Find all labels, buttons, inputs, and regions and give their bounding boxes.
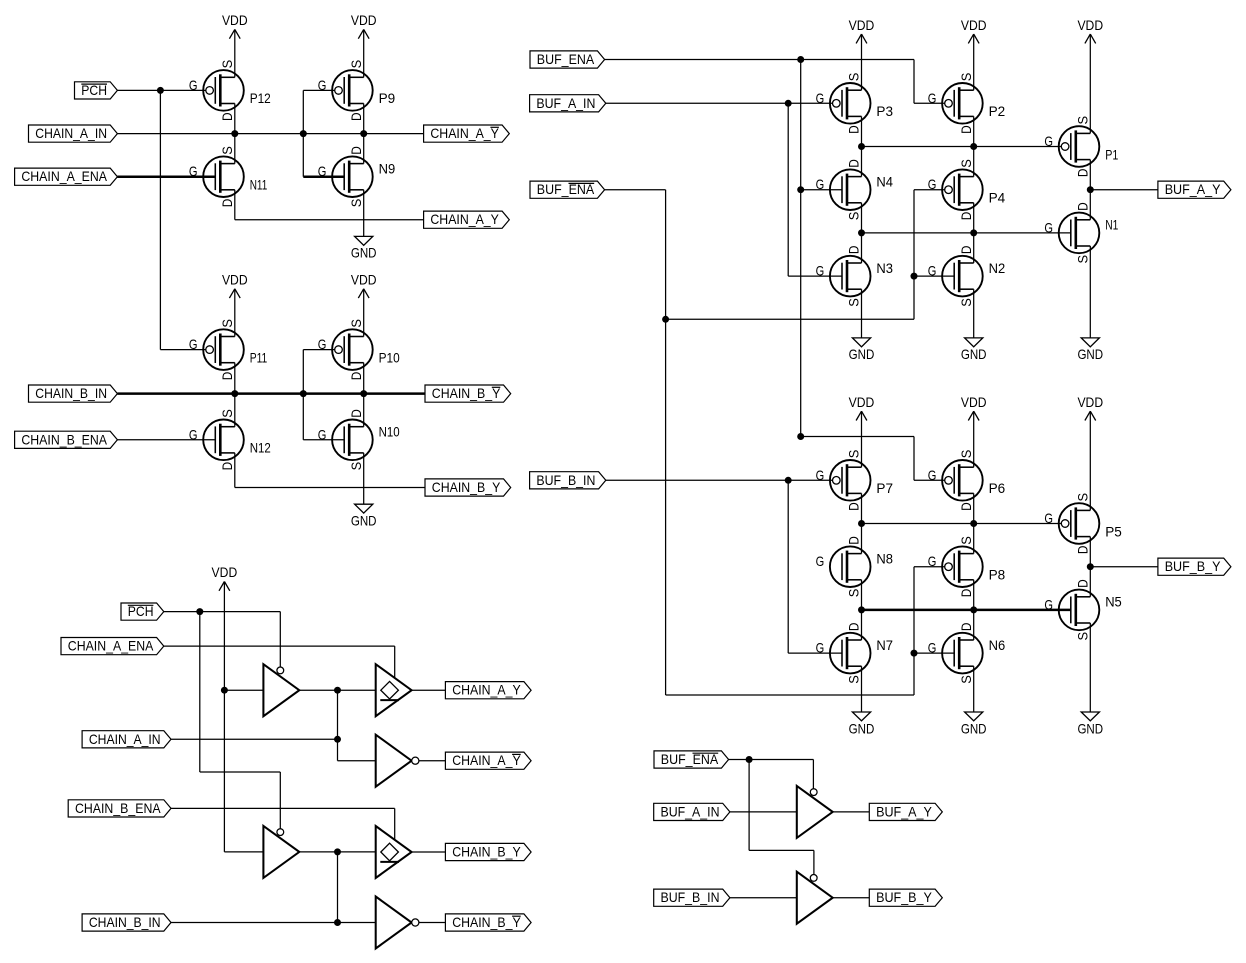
svg-text:D: D bbox=[219, 462, 235, 471]
svg-text:G: G bbox=[816, 176, 825, 192]
wire gate ladder vertical bbox=[302, 90, 304, 176]
wire BUF_ENAbar up to P4 gate bbox=[913, 190, 915, 320]
wire CHAIN_B_Ybar out bbox=[419, 922, 445, 924]
gate buffer U8 (BUF_B_Y) bbox=[797, 872, 833, 924]
svg-text:S: S bbox=[219, 146, 235, 155]
wire P9 drain bbox=[363, 104, 365, 134]
wire PCH to P12 gate bbox=[160, 89, 205, 91]
net flag CHAIN_A_Y (output label) bbox=[445, 682, 531, 699]
junction PCH node bbox=[157, 87, 164, 94]
svg-text:N1: N1 bbox=[1105, 217, 1118, 233]
svg-text:BUF_A_Y: BUF_A_Y bbox=[1165, 181, 1221, 197]
junction buffer B out bbox=[334, 848, 341, 855]
transistor N7 (NMOS) bbox=[816, 623, 894, 684]
ground GND symbol bbox=[1077, 712, 1103, 736]
wire BUF_ENAbar vertical bbox=[665, 190, 667, 695]
svg-text:G: G bbox=[816, 553, 825, 569]
svg-text:VDD: VDD bbox=[849, 17, 875, 33]
power VDD symbol bbox=[351, 272, 377, 299]
svg-text:VDD: VDD bbox=[222, 272, 248, 288]
wire VDD line to buffer B input bbox=[223, 690, 225, 852]
svg-text:D: D bbox=[958, 246, 974, 255]
wire VDD stem bbox=[861, 411, 863, 467]
net flag CHAIN_A_ENA (input label) bbox=[61, 638, 164, 655]
power VDD symbol bbox=[351, 12, 377, 39]
junction node B1 bbox=[858, 520, 865, 527]
transistor P12 (PMOS) bbox=[189, 60, 271, 121]
gate tri-state buffer U5 (CHAIN_B_Y) bbox=[376, 826, 412, 878]
net flag PCH (input label) bbox=[121, 603, 164, 620]
svg-text:GND: GND bbox=[1077, 720, 1103, 736]
transistor P3 (PMOS) bbox=[816, 73, 894, 134]
svg-text:S: S bbox=[846, 450, 862, 459]
transistor P10 (PMOS) bbox=[318, 319, 400, 380]
svg-text:S: S bbox=[348, 319, 364, 328]
wire P1 drain bbox=[1089, 160, 1091, 220]
svg-text:P9: P9 bbox=[379, 90, 396, 106]
svg-text:VDD: VDD bbox=[849, 394, 875, 410]
wire CHAIN_B_ENA bbox=[171, 807, 395, 809]
junction node A2 col B bbox=[970, 229, 977, 236]
svg-text:S: S bbox=[958, 450, 974, 459]
svg-text:P12: P12 bbox=[250, 90, 271, 106]
wire P3 drain chain bbox=[861, 116, 863, 176]
wire inverter B input bbox=[338, 922, 376, 924]
svg-text:VDD: VDD bbox=[351, 272, 377, 288]
wire BUF_ENAbar up to P8 gate bbox=[913, 567, 915, 695]
svg-text:S: S bbox=[846, 212, 862, 221]
svg-text:P10: P10 bbox=[379, 349, 400, 365]
wire N12 drain down bbox=[234, 453, 236, 488]
svg-text:N3: N3 bbox=[876, 260, 893, 276]
power VDD symbol bbox=[849, 394, 875, 421]
transistor P9 (PMOS) bbox=[318, 60, 396, 121]
transistor P7 (PMOS) bbox=[816, 450, 894, 511]
junction CHAIN_A_IN / inverter gates bbox=[300, 130, 307, 137]
junction VDD / buffer A input bbox=[221, 687, 228, 694]
svg-text:G: G bbox=[928, 553, 937, 569]
ground GND symbol bbox=[351, 236, 377, 260]
transistor N12 (NMOS) bbox=[189, 409, 271, 470]
svg-text:CHAIN_A_Y: CHAIN_A_Y bbox=[452, 682, 521, 698]
svg-text:G: G bbox=[816, 640, 825, 656]
svg-text:G: G bbox=[816, 90, 825, 106]
svg-text:N4: N4 bbox=[876, 174, 893, 190]
junction CHAIN_B_IN / P11 drain bbox=[231, 390, 238, 397]
junction CHAIN_A_Ybar node bbox=[360, 130, 367, 137]
wire PCH to buffer B enable bbox=[279, 772, 281, 835]
svg-text:S: S bbox=[958, 536, 974, 545]
svg-text:D: D bbox=[958, 502, 974, 511]
svg-text:BUF_A_IN: BUF_A_IN bbox=[536, 95, 595, 111]
net flag CHAIN_A_Y (output label) bbox=[424, 211, 510, 228]
transistor N11 (NMOS) bbox=[189, 146, 268, 207]
wire P12 drain bbox=[234, 104, 236, 134]
wire N10 source to GND bbox=[363, 453, 365, 504]
wire P2 drain chain bbox=[973, 116, 975, 176]
wire VDD stem to P10 source bbox=[363, 289, 365, 337]
net flag BUF_B_IN (input label) bbox=[530, 472, 606, 489]
svg-text:S: S bbox=[958, 675, 974, 684]
net flag CHAIN_A_ENA (input label) bbox=[15, 168, 118, 185]
wire inverter A input bbox=[338, 760, 376, 762]
junction BUF_ENAbar bbox=[746, 756, 753, 763]
wire node B1 to P5 gate bbox=[862, 523, 1062, 525]
svg-text:P11: P11 bbox=[250, 349, 268, 365]
svg-text:D: D bbox=[958, 212, 974, 221]
svg-text:CHAIN_B_Y: CHAIN_B_Y bbox=[452, 914, 521, 930]
svg-text:S: S bbox=[846, 675, 862, 684]
svg-text:GND: GND bbox=[351, 513, 377, 529]
section: CHAIN gate-level view bbox=[0, 0, 1, 1]
wire N11 source bbox=[234, 134, 236, 164]
svg-text:GND: GND bbox=[849, 720, 875, 736]
net flag BUF_ENAbar (input label) bbox=[654, 751, 729, 768]
wire N12 source bbox=[234, 394, 236, 427]
svg-text:S: S bbox=[958, 298, 974, 307]
wire BUF_ENA down to P2 gate bbox=[913, 60, 915, 104]
wire P5 drain bbox=[1089, 537, 1091, 597]
svg-text:GND: GND bbox=[961, 720, 987, 736]
svg-text:S: S bbox=[958, 73, 974, 82]
transistor P1 (PMOS) bbox=[1044, 116, 1118, 177]
transistor P11 (PMOS) bbox=[189, 319, 268, 380]
svg-text:S: S bbox=[1075, 632, 1091, 641]
wire CHAIN_B_IN bus (bold) bbox=[117, 392, 425, 395]
junction BUF_A_IN bbox=[785, 100, 792, 107]
wire to N6 gate bbox=[914, 652, 954, 654]
power VDD symbol bbox=[1077, 394, 1103, 421]
net flag CHAIN_B_ENA (input label) bbox=[15, 431, 118, 448]
wire N6 source to GND bbox=[973, 666, 975, 712]
svg-text:D: D bbox=[846, 623, 862, 632]
wire gate ladder vertical B bbox=[302, 350, 304, 440]
wire to N4 gate bbox=[801, 189, 842, 191]
wire to N7 gate bbox=[788, 652, 842, 654]
wire N8 source chain bbox=[861, 580, 863, 640]
wire CHAIN_A_Y bbox=[235, 219, 424, 221]
wire node B2 to N5 gate (bold) bbox=[862, 609, 1071, 612]
junction node A2 bbox=[858, 229, 865, 236]
svg-text:D: D bbox=[846, 246, 862, 255]
section: CHAIN B transistor stage bbox=[0, 0, 1, 1]
wire VDD stem bbox=[1089, 411, 1091, 510]
wire BUF_B_Y bbox=[1090, 566, 1158, 568]
wire BUF_ENA B branch bbox=[801, 436, 914, 438]
svg-text:CHAIN_B_ENA: CHAIN_B_ENA bbox=[75, 800, 161, 816]
wire CHAIN_A_Y out bbox=[412, 689, 446, 691]
wire N2 source to GND bbox=[973, 289, 975, 338]
wire VDD stem bbox=[861, 34, 863, 90]
svg-text:S: S bbox=[348, 199, 364, 208]
svg-text:S: S bbox=[219, 319, 235, 328]
wire N7 source to GND bbox=[861, 666, 863, 712]
ground GND symbol bbox=[849, 338, 875, 362]
net flag CHAIN_B_Ybar (output label) bbox=[445, 914, 531, 931]
svg-text:VDD: VDD bbox=[222, 12, 248, 28]
wire PCH vertical bbox=[199, 612, 201, 772]
svg-text:N5: N5 bbox=[1105, 594, 1122, 610]
wire N9 source to GND bbox=[363, 190, 365, 237]
svg-text:G: G bbox=[928, 176, 937, 192]
wire BUF_A_Y bbox=[1090, 189, 1158, 191]
svg-text:N10: N10 bbox=[379, 424, 400, 440]
junction buffer A out bbox=[334, 687, 341, 694]
wire PCH bbox=[164, 611, 280, 613]
wire to N10 gate bbox=[303, 439, 344, 441]
svg-text:CHAIN_A_IN: CHAIN_A_IN bbox=[35, 125, 107, 141]
svg-text:G: G bbox=[928, 467, 937, 483]
wire node A2 to N1 gate bbox=[862, 232, 1071, 234]
transistor N8 (NMOS) bbox=[816, 536, 894, 597]
wire BUF_ENAbar bbox=[605, 189, 666, 191]
junction BUF_ENAbar / N2 gate bbox=[911, 273, 918, 280]
svg-text:GND: GND bbox=[1077, 346, 1103, 362]
wire to P4 gate bbox=[914, 189, 945, 191]
svg-text:S: S bbox=[219, 409, 235, 418]
svg-text:S: S bbox=[1075, 255, 1091, 264]
junction BUF_ENAbar A branch bbox=[662, 316, 669, 323]
wire node A1 to P1 gate bbox=[862, 146, 1062, 148]
wire VDD stem to P12 source bbox=[234, 29, 236, 77]
svg-text:BUF_B_Y: BUF_B_Y bbox=[876, 889, 932, 905]
wire VDD stem bbox=[973, 411, 975, 467]
power VDD symbol bbox=[849, 17, 875, 44]
wire BUF_A_IN vertical bbox=[787, 103, 789, 276]
svg-text:CHAIN_A_Y: CHAIN_A_Y bbox=[452, 752, 521, 768]
transistor P4 (PMOS) bbox=[928, 159, 1006, 220]
wire P10 drain bbox=[363, 363, 365, 394]
net flag CHAIN_B_ENA (input label) bbox=[68, 800, 171, 817]
svg-text:N8: N8 bbox=[876, 551, 893, 567]
svg-text:CHAIN_B_Y: CHAIN_B_Y bbox=[452, 844, 521, 860]
net flag CHAIN_A_Ybar (output label) bbox=[424, 125, 510, 142]
svg-text:N6: N6 bbox=[989, 637, 1006, 653]
power VDD symbol bbox=[961, 394, 987, 421]
wire N3 source to GND bbox=[861, 289, 863, 338]
power VDD symbol bbox=[1077, 17, 1103, 44]
wire CHAIN_B_IN bbox=[171, 922, 338, 924]
svg-text:CHAIN_A_Y: CHAIN_A_Y bbox=[430, 211, 499, 227]
svg-text:GND: GND bbox=[351, 245, 377, 261]
svg-text:P1: P1 bbox=[1105, 146, 1118, 162]
svg-text:D: D bbox=[846, 159, 862, 168]
svg-text:CHAIN_A_IN: CHAIN_A_IN bbox=[89, 731, 161, 747]
net flag BUF_ENA (input label) bbox=[530, 51, 605, 68]
svg-text:P3: P3 bbox=[876, 103, 893, 119]
wire BUF_A_Y out bbox=[833, 811, 870, 813]
wire P7 drain chain bbox=[861, 493, 863, 553]
svg-text:D: D bbox=[958, 623, 974, 632]
svg-text:CHAIN_A_ENA: CHAIN_A_ENA bbox=[68, 638, 154, 654]
junction BUF_B_Y node bbox=[1087, 563, 1094, 570]
svg-text:D: D bbox=[846, 502, 862, 511]
wire buffer B input bbox=[224, 851, 263, 853]
ground GND symbol bbox=[849, 712, 875, 736]
wire CHAIN_A_ENA down to tristate enable bbox=[394, 646, 396, 678]
net flag CHAIN_B_Ybar (output label) bbox=[425, 385, 511, 402]
svg-text:S: S bbox=[846, 73, 862, 82]
power VDD symbol bbox=[222, 12, 248, 39]
wire PCH to buffer A enable bbox=[279, 612, 281, 674]
wire P11 drain bbox=[234, 363, 236, 394]
junction CHAIN_B_IN bbox=[334, 919, 341, 926]
svg-text:D: D bbox=[348, 146, 364, 155]
wire CHAIN_B_ENA to N12 gate bbox=[117, 439, 215, 441]
svg-text:CHAIN_B_Y: CHAIN_B_Y bbox=[432, 385, 501, 401]
svg-text:S: S bbox=[1075, 493, 1091, 502]
power VDD symbol bbox=[961, 17, 987, 44]
wire N11 drain down bbox=[234, 190, 236, 220]
gate inverter U4 (CHAIN_A_Ybar) bbox=[376, 735, 419, 787]
svg-text:BUF_B_IN: BUF_B_IN bbox=[661, 889, 720, 905]
svg-text:P4: P4 bbox=[989, 190, 1006, 206]
junction BUF_ENA / N4 gate bbox=[797, 186, 804, 193]
wire VDD stem bbox=[223, 582, 225, 691]
svg-text:G: G bbox=[928, 263, 937, 279]
net flag PCH (input label) bbox=[75, 82, 118, 99]
svg-text:S: S bbox=[1075, 116, 1091, 125]
wire BUF_A_IN to P3 gate bbox=[606, 102, 833, 104]
svg-text:P2: P2 bbox=[989, 103, 1006, 119]
svg-text:CHAIN_B_ENA: CHAIN_B_ENA bbox=[21, 431, 107, 447]
wire down to inverter B bbox=[337, 852, 339, 923]
wire BUF_B_Y out bbox=[833, 897, 870, 899]
transistor N4 (NMOS) bbox=[816, 159, 894, 220]
transistor N5 (NMOS) bbox=[1044, 579, 1122, 640]
transistor N3 (NMOS) bbox=[816, 246, 894, 307]
wire VDD stem to P11 source bbox=[234, 289, 236, 337]
wire VDD stem to P9 source bbox=[363, 29, 365, 77]
wire to P10 gate bbox=[303, 349, 334, 351]
wire BUF_ENAbar bbox=[729, 759, 814, 761]
wire BUF_B_IN bbox=[730, 897, 797, 899]
svg-text:S: S bbox=[846, 589, 862, 598]
wire CHAIN_B_ENA down to tristate enable bbox=[394, 808, 396, 840]
svg-text:S: S bbox=[348, 462, 364, 471]
transistor N1 (NMOS) bbox=[1044, 202, 1118, 263]
junction node A1 col B bbox=[970, 143, 977, 150]
svg-text:G: G bbox=[816, 263, 825, 279]
svg-text:G: G bbox=[928, 90, 937, 106]
wire BUF_ENAbar to buffer A enable bbox=[812, 760, 814, 790]
svg-text:G: G bbox=[189, 77, 198, 93]
svg-text:VDD: VDD bbox=[1077, 17, 1103, 33]
wire CHAIN_B_Y bbox=[235, 487, 425, 489]
svg-text:VDD: VDD bbox=[961, 394, 987, 410]
wire PCH to junction bbox=[117, 89, 160, 91]
gate inverter U6 (CHAIN_B_Ybar) bbox=[376, 897, 419, 949]
svg-text:G: G bbox=[928, 640, 937, 656]
svg-text:CHAIN_A_Y: CHAIN_A_Y bbox=[430, 125, 499, 141]
transistor N2 (NMOS) bbox=[928, 246, 1006, 307]
svg-text:P6: P6 bbox=[989, 480, 1006, 496]
svg-text:S: S bbox=[348, 60, 364, 69]
svg-text:D: D bbox=[958, 589, 974, 598]
ground GND symbol bbox=[961, 338, 987, 362]
svg-text:VDD: VDD bbox=[212, 564, 238, 580]
net flag BUF_A_Y (output label) bbox=[869, 803, 942, 820]
svg-text:GND: GND bbox=[849, 346, 875, 362]
svg-text:D: D bbox=[1075, 579, 1091, 588]
wire CHAIN_A_IN bbox=[171, 738, 338, 740]
wire VDD stem bbox=[973, 34, 975, 90]
wire BUF_A_IN bbox=[730, 811, 797, 813]
wire to P9 gate bbox=[303, 89, 334, 91]
svg-text:CHAIN_A_ENA: CHAIN_A_ENA bbox=[21, 168, 107, 184]
svg-text:S: S bbox=[219, 60, 235, 69]
wire buffer A input bbox=[224, 689, 263, 691]
ground GND symbol bbox=[1077, 338, 1103, 362]
net flag BUF_B_Y (output label) bbox=[1158, 558, 1231, 575]
wire BUF_ENAbar to buffer B enable bbox=[813, 850, 815, 875]
svg-text:D: D bbox=[219, 199, 235, 208]
svg-text:VDD: VDD bbox=[351, 12, 377, 28]
section: CHAIN A transistor stage bbox=[0, 0, 1, 1]
svg-text:D: D bbox=[1075, 169, 1091, 178]
ground GND symbol bbox=[351, 504, 377, 528]
wire down to inverter A bbox=[337, 690, 339, 761]
svg-text:N11: N11 bbox=[250, 177, 268, 193]
wire to P8 gate bbox=[914, 566, 945, 568]
wire VDD stem bbox=[1089, 34, 1091, 133]
svg-text:VDD: VDD bbox=[961, 17, 987, 33]
wire BUF_ENAbar A branch bbox=[666, 318, 914, 320]
gate buffer U7 (BUF_A_Y) bbox=[797, 786, 833, 838]
net flag BUF_ENAbar (input label) bbox=[530, 181, 605, 198]
svg-text:BUF_B_Y: BUF_B_Y bbox=[1165, 558, 1221, 574]
svg-text:D: D bbox=[219, 372, 235, 381]
wire to P2 gate bbox=[914, 102, 945, 104]
wire BUF_ENAbar B branch bbox=[666, 694, 914, 696]
transistor P8 (PMOS) bbox=[928, 536, 1006, 597]
junction node A1 bbox=[858, 143, 865, 150]
svg-text:N9: N9 bbox=[379, 161, 396, 177]
svg-text:CHAIN_B_IN: CHAIN_B_IN bbox=[35, 385, 107, 401]
svg-text:D: D bbox=[1075, 202, 1091, 211]
svg-text:P7: P7 bbox=[876, 480, 893, 496]
svg-text:BUF_A_IN: BUF_A_IN bbox=[661, 803, 720, 819]
wire to N2 gate bbox=[914, 275, 954, 277]
svg-text:D: D bbox=[846, 536, 862, 545]
svg-text:VDD: VDD bbox=[1077, 394, 1103, 410]
svg-text:P8: P8 bbox=[989, 567, 1006, 583]
junction node B2 col B bbox=[970, 606, 977, 613]
wire BUF_B_IN vertical bbox=[787, 480, 789, 653]
svg-text:D: D bbox=[219, 112, 235, 121]
net flag BUF_A_IN (input label) bbox=[654, 803, 730, 820]
wire BUF_ENA vertical bbox=[800, 60, 802, 437]
wire CHAIN_A_IN bus bbox=[117, 133, 423, 135]
svg-text:GND: GND bbox=[961, 346, 987, 362]
junction node B2 bbox=[858, 606, 865, 613]
svg-text:D: D bbox=[1075, 546, 1091, 555]
net flag CHAIN_A_IN (input label) bbox=[82, 731, 171, 748]
wire BUF_ENA down to P6 gate bbox=[913, 437, 915, 481]
wire to P6 gate bbox=[914, 479, 945, 481]
wire buffer B out bbox=[299, 851, 375, 853]
section: BUF gate-level view bbox=[0, 0, 1, 1]
net flag BUF_B_IN (input label) bbox=[654, 889, 730, 906]
junction BUF_B_IN bbox=[785, 477, 792, 484]
wire N9 drain bbox=[363, 134, 365, 164]
power VDD symbol bbox=[222, 272, 248, 299]
svg-text:BUF_B_IN: BUF_B_IN bbox=[536, 472, 595, 488]
transistor P2 (PMOS) bbox=[928, 73, 1006, 134]
wire BUF_ENAbar branch bbox=[749, 849, 814, 851]
wire CHAIN_B_Y out bbox=[412, 851, 446, 853]
svg-text:D: D bbox=[348, 409, 364, 418]
